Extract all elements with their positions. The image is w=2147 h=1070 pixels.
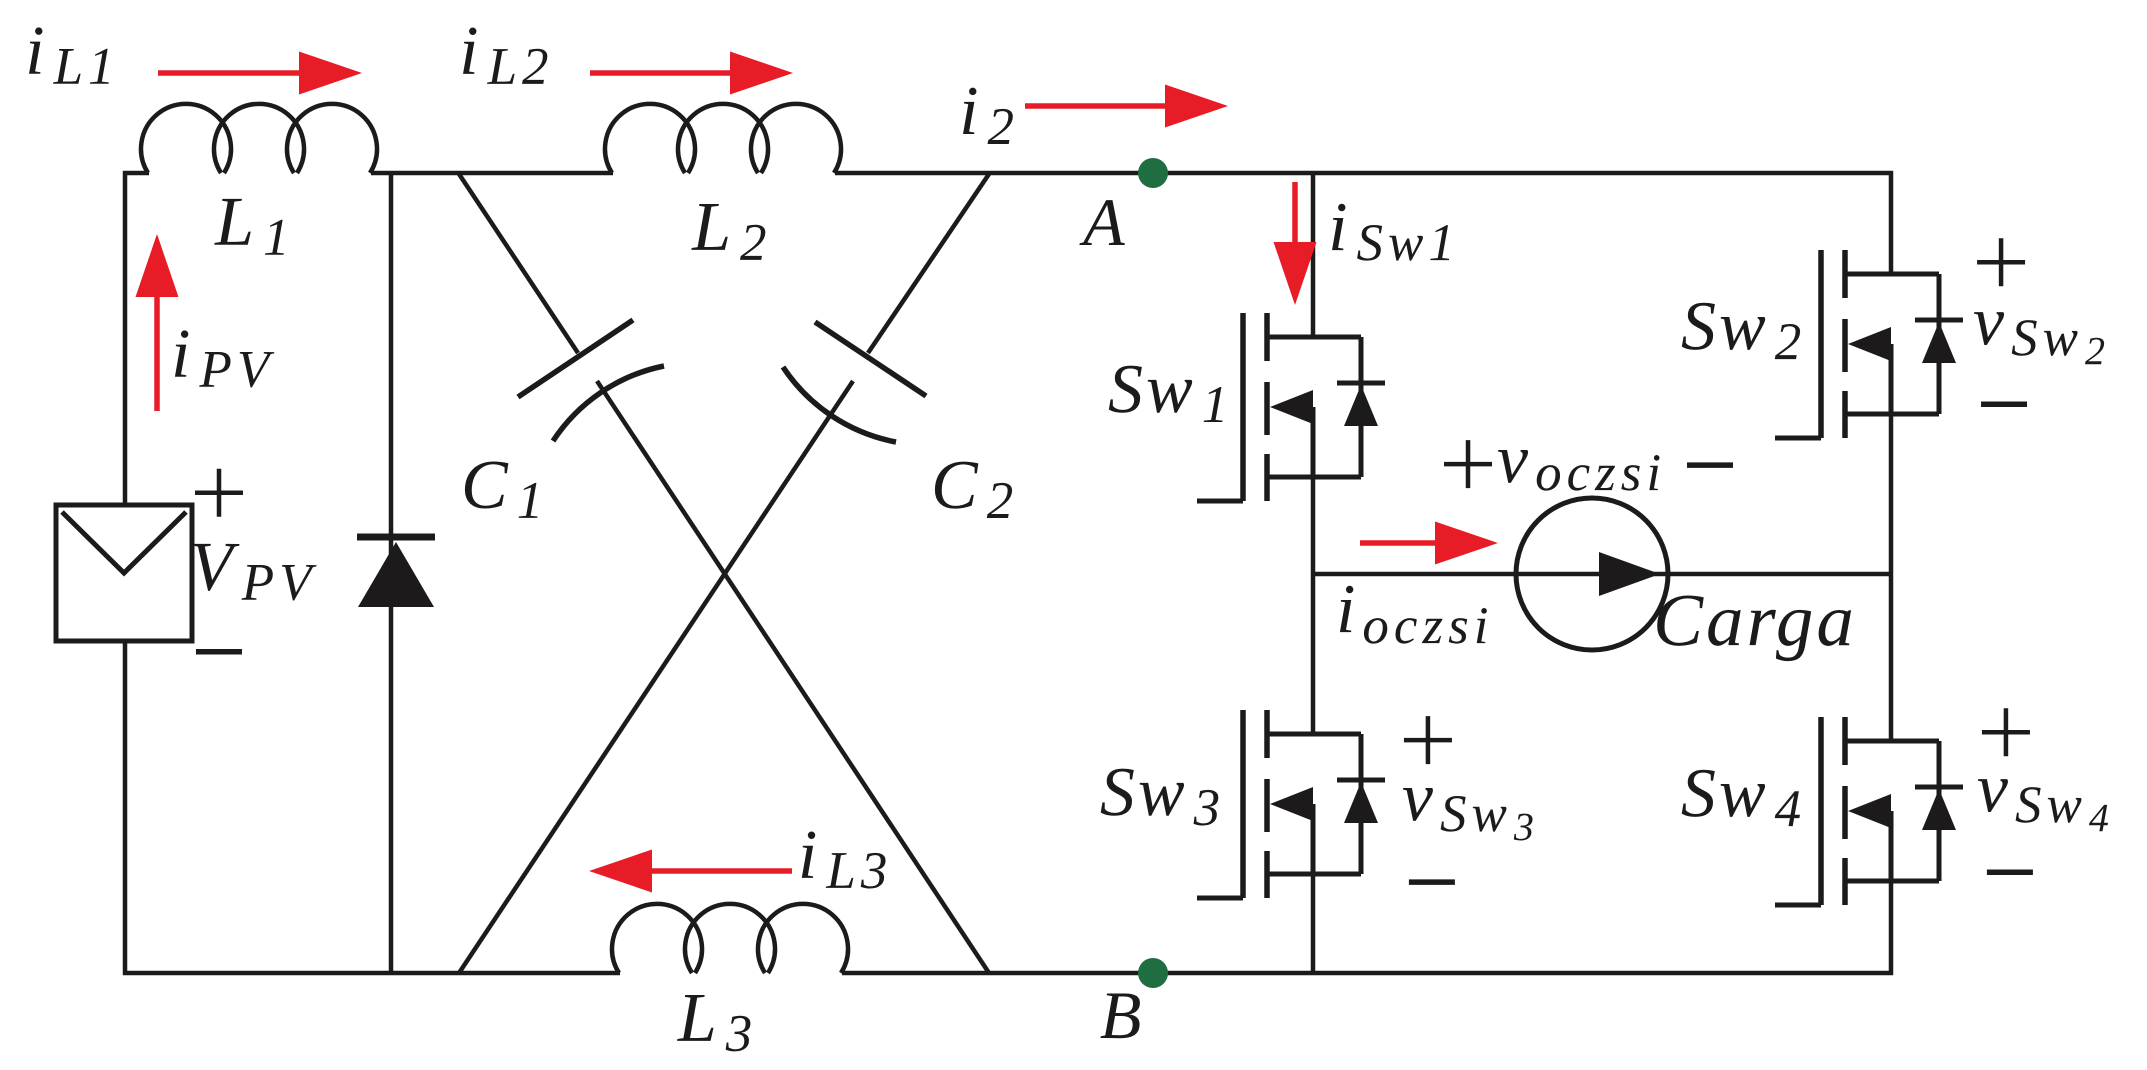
transistor Sw4 (U4)	[1775, 717, 1963, 905]
wire top rail from L2 past node A to right rail	[835, 171, 1893, 176]
current arrow iL3	[589, 850, 792, 893]
label plus vSw2	[1977, 238, 2025, 286]
current arrow i2	[1025, 85, 1228, 128]
svg-text:B: B	[1100, 977, 1145, 1053]
current arrow ioczsi	[1360, 522, 1498, 565]
svg-text:A: A	[1079, 184, 1128, 260]
capacitor C1 curved plate	[553, 366, 664, 441]
node B junction dot	[1138, 958, 1168, 988]
inductor L3	[612, 904, 848, 973]
wire right diagonal lower segment (C2 to bottom rail)	[459, 381, 853, 973]
current arrow iL1	[158, 52, 362, 95]
PV source chevron	[62, 512, 186, 573]
current arrow iPV	[136, 234, 179, 411]
wire top rail left stub	[123, 171, 149, 176]
wire right rail Sw4 source to bottom rail	[1889, 881, 1894, 975]
wire bottom rail from bottom-left corner to L3	[123, 971, 620, 976]
label minus vSw4	[1987, 869, 2033, 875]
label minus vSw2	[1981, 401, 2027, 407]
label minus vSw3	[1409, 879, 1455, 885]
wire left vertical top (top-left corner down to PV)	[123, 171, 128, 507]
transistor Sw2 (U2)	[1775, 250, 1963, 438]
PV source box	[56, 505, 192, 641]
wire top rail between L1 and L2	[371, 171, 613, 176]
capacitor C2 flat plate	[815, 322, 926, 396]
wire diode branch vertical	[389, 173, 394, 973]
capacitor C1 flat plate	[518, 320, 633, 397]
wire Sw3 source to bottom rail	[1311, 874, 1316, 975]
current arrow iL2	[590, 52, 793, 95]
current source arrow	[1599, 552, 1660, 596]
label minus voczsi	[1687, 462, 1733, 468]
inductor L1	[141, 104, 377, 173]
label plus vSw3	[1404, 716, 1452, 764]
wire left diagonal upper segment (top rail to C1)	[459, 174, 578, 353]
diode D1 cathode bar	[357, 534, 435, 541]
wire mid load rail	[1313, 572, 1893, 577]
wire Sw1 source down through mid rail to Sw3 drain	[1311, 477, 1316, 734]
transistor Sw1 (U1)	[1197, 313, 1385, 501]
wire Sw1 branch from top rail	[1311, 173, 1316, 337]
label minus PV	[196, 649, 242, 655]
svg-text:Carga: Carga	[1653, 579, 1857, 662]
wire right diagonal upper segment (top rail to C2)	[868, 174, 989, 353]
inductor L2	[605, 104, 841, 173]
current arrow iSw1	[1274, 182, 1317, 305]
current source Carga circle	[1516, 498, 1668, 650]
wire right rail Sw2 source to Sw4 drain	[1889, 414, 1894, 741]
capacitor C2 curved plate	[783, 367, 896, 442]
label plus vSw4	[1982, 708, 2030, 756]
label plus voczsi	[1444, 440, 1492, 488]
node A junction dot	[1138, 158, 1168, 188]
wire left vertical bottom (PV to bottom rail)	[123, 639, 128, 975]
transistor Sw3 (U3)	[1197, 710, 1385, 898]
wire right rail top (corner to Sw2 drain)	[1889, 171, 1894, 274]
wire bottom rail from L3 past node B to right rail	[842, 971, 1893, 976]
label plus PV	[195, 469, 243, 517]
wire left diagonal lower segment (C1 to bottom rail)	[597, 381, 989, 973]
diode D1 filled triangle	[358, 542, 434, 607]
